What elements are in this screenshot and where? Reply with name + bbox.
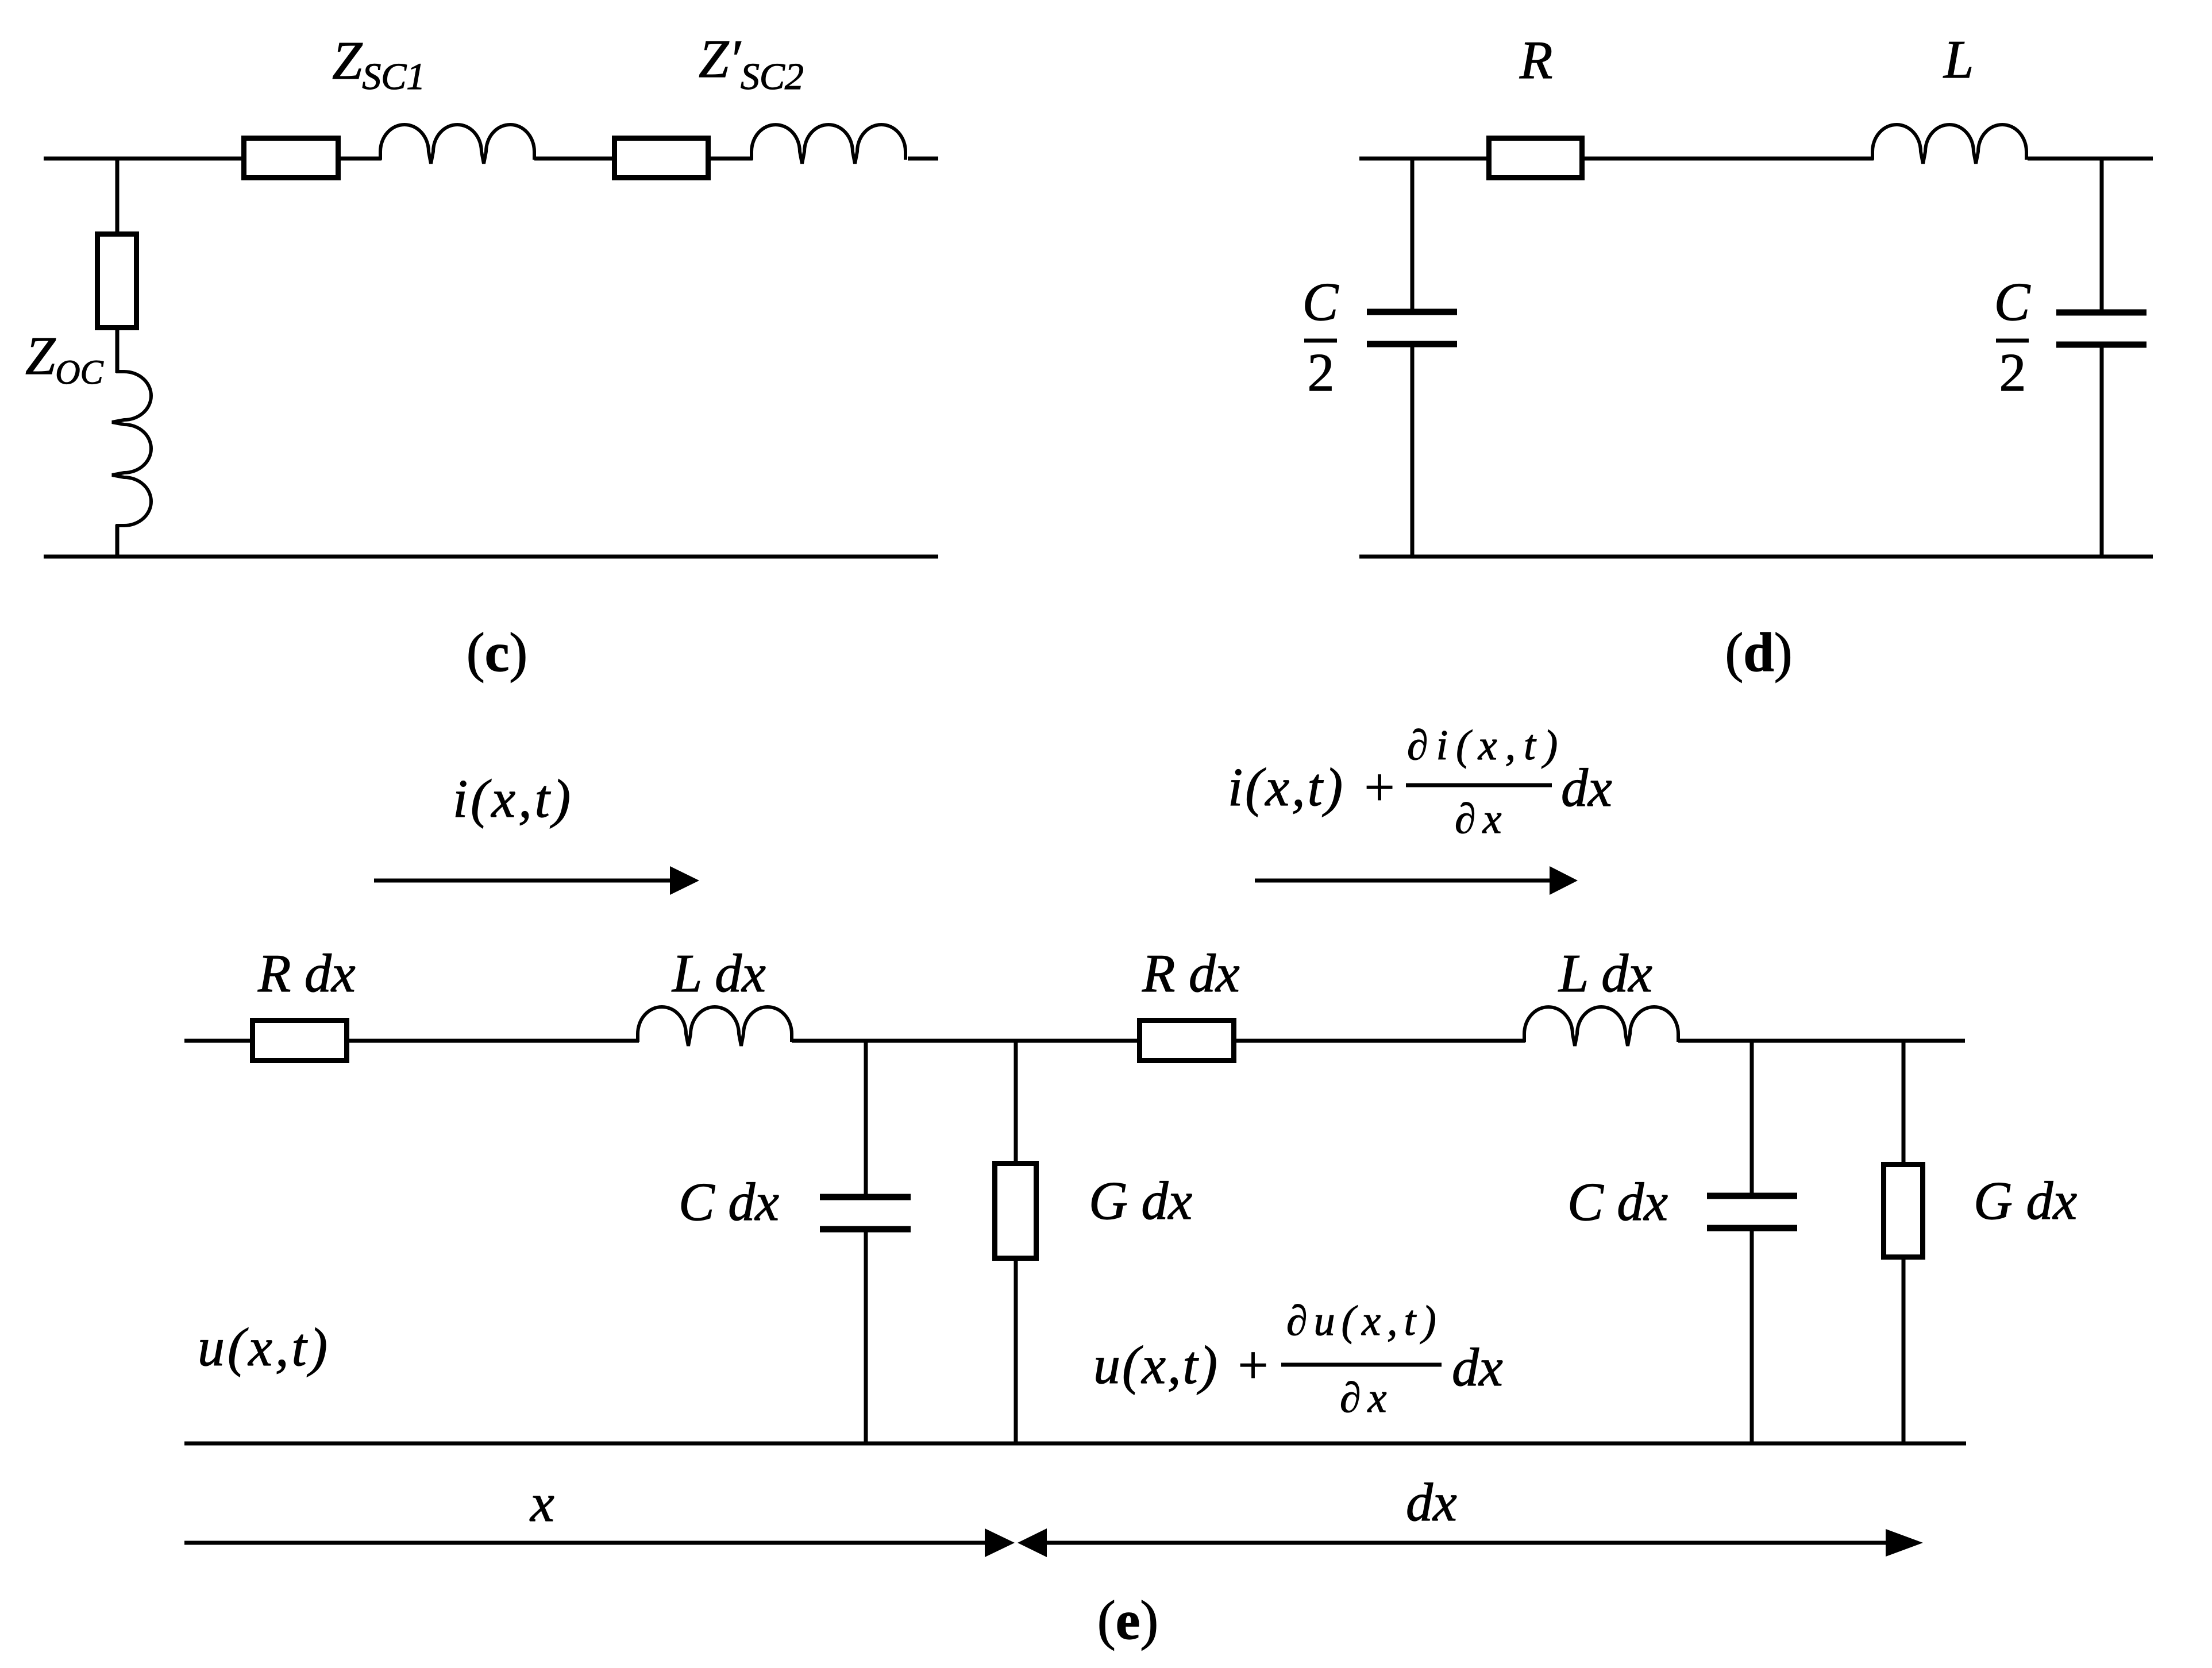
wire (e) top segment 3 xyxy=(792,1039,1137,1043)
svg-text:dx: dx xyxy=(1452,1338,1503,1397)
resistor R box xyxy=(1489,138,1582,178)
capacitor C dx 2 bottom plate xyxy=(1707,1225,1797,1231)
inductor L dx coil 2 xyxy=(1524,1007,1678,1046)
svg-text:C: C xyxy=(1994,272,2031,332)
svg-text:u(x,t): u(x,t) xyxy=(198,1318,330,1377)
wire G dx branch 1 upper xyxy=(1014,1039,1018,1161)
current arrow i(x,t) xyxy=(374,866,699,895)
resistor Z_SC1 box xyxy=(244,138,338,178)
svg-text:R dx: R dx xyxy=(257,944,356,1003)
label u(x,t)+du(x,t)/dx dx xyxy=(1093,1298,1503,1422)
wire (c) top-left segment xyxy=(44,157,241,161)
wire G dx branch 1 lower xyxy=(1014,1261,1018,1443)
wire (c) bottom xyxy=(44,555,938,559)
inductor Z_OC coil xyxy=(112,372,151,526)
wire (c) top-right segment xyxy=(908,157,938,161)
wire C dx branch 2 lower xyxy=(1750,1228,1754,1443)
wire C dx branch 1 lower xyxy=(864,1229,868,1443)
svg-text:2: 2 xyxy=(1308,343,1335,403)
svg-text:∂i(x,t): ∂i(x,t) xyxy=(1407,722,1566,769)
svg-text:∂u(x,t): ∂u(x,t) xyxy=(1286,1298,1443,1345)
label i(x,t)+di(x,t)/dx dx xyxy=(1228,722,1612,843)
dimension arrow dx xyxy=(1018,1528,1923,1557)
label C/2 left fraction bar xyxy=(1304,339,1337,343)
wire (d) bottom xyxy=(1359,555,2153,559)
inductor L dx coil 1 xyxy=(638,1007,792,1046)
inductor L coil xyxy=(1872,125,2026,164)
label C/2 right fraction bar xyxy=(1996,339,2029,343)
resistor G dx box 2 xyxy=(1884,1165,1923,1257)
capacitor C dx 1 top plate xyxy=(820,1194,911,1200)
inductor Z_SC1 coil xyxy=(380,125,534,164)
wire C dx branch 1 upper xyxy=(864,1039,868,1197)
wire (e) top segment 2 xyxy=(349,1039,639,1043)
wire (e) top segment 4 xyxy=(1236,1039,1525,1043)
wire G dx branch 2 upper xyxy=(1902,1039,1906,1162)
svg-text:(c): (c) xyxy=(467,621,528,683)
svg-text:u(x,t) +: u(x,t) + xyxy=(1093,1335,1273,1395)
svg-text:Z′SC2: Z′SC2 xyxy=(699,29,804,98)
svg-text:(e): (e) xyxy=(1097,1589,1159,1651)
wire (c) vertical branch upper xyxy=(115,157,120,231)
wire (d) between R and L xyxy=(1585,157,1874,161)
wire (c) between inductors and Z_SC2 box xyxy=(534,157,612,161)
capacitor C/2 left bottom plate xyxy=(1367,341,1457,347)
svg-text:2: 2 xyxy=(1999,343,2026,403)
capacitor C/2 right top plate xyxy=(2056,310,2147,316)
wire (d) left branch lower xyxy=(1411,344,1415,557)
wire G dx branch 2 lower xyxy=(1902,1260,1906,1443)
capacitor C dx 2 top plate xyxy=(1707,1193,1797,1199)
wire (c) vertical branch lower xyxy=(115,524,120,557)
svg-text:dx: dx xyxy=(1561,758,1612,818)
svg-text:dx: dx xyxy=(1406,1473,1457,1532)
capacitor C/2 right bottom plate xyxy=(2056,342,2147,348)
wire (c) between Z_SC1 box and inductor xyxy=(341,157,381,161)
svg-text:R: R xyxy=(1519,30,1552,90)
current arrow i+di xyxy=(1255,866,1578,895)
resistor R dx box 2 xyxy=(1140,1021,1234,1061)
svg-text:G dx: G dx xyxy=(1089,1171,1192,1231)
svg-text:ZOC: ZOC xyxy=(25,326,104,391)
capacitor C dx 1 bottom plate xyxy=(820,1226,911,1233)
wire C dx branch 2 upper xyxy=(1750,1039,1754,1196)
svg-text:x: x xyxy=(529,1473,554,1533)
wire (c) between Z_SC2 box and inductor xyxy=(711,157,753,161)
resistor R dx box 1 xyxy=(253,1021,347,1061)
wire (d) top-left segment xyxy=(1359,157,1486,161)
svg-text:C dx: C dx xyxy=(679,1172,779,1232)
resistor Z_OC box xyxy=(98,234,137,328)
wire (e) bottom xyxy=(184,1442,1966,1446)
dimension arrow x xyxy=(184,1528,1015,1557)
svg-text:(d): (d) xyxy=(1725,621,1792,683)
wire (d) left branch upper xyxy=(1411,157,1415,312)
svg-text:i(x,t): i(x,t) xyxy=(453,769,573,829)
wire (c) below Z_OC box xyxy=(115,330,120,373)
inductor Z_SC2 coil xyxy=(752,125,905,164)
svg-text:R dx: R dx xyxy=(1142,944,1240,1003)
svg-text:C: C xyxy=(1302,272,1339,332)
svg-text:L dx: L dx xyxy=(671,944,766,1003)
svg-text:∂x: ∂x xyxy=(1340,1374,1393,1422)
svg-text:L: L xyxy=(1943,30,1974,90)
svg-text:C dx: C dx xyxy=(1567,1172,1668,1232)
wire (e) top segment 1 xyxy=(184,1039,250,1043)
svg-text:ZSC1: ZSC1 xyxy=(332,31,425,98)
svg-text:L dx: L dx xyxy=(1558,944,1652,1003)
wire (d) top-right segment xyxy=(2028,157,2153,161)
capacitor C/2 left top plate xyxy=(1367,309,1457,315)
wire (d) right branch lower xyxy=(2100,345,2104,557)
svg-text:∂x: ∂x xyxy=(1455,796,1508,843)
resistor G dx box 1 xyxy=(995,1164,1036,1258)
resistor Z_SC2 box xyxy=(615,138,708,178)
svg-text:G dx: G dx xyxy=(1974,1171,2077,1231)
svg-text:i(x,t) +: i(x,t) + xyxy=(1228,758,1400,817)
wire (e) top segment 5 xyxy=(1678,1039,1965,1043)
wire (d) right branch upper xyxy=(2100,157,2104,312)
